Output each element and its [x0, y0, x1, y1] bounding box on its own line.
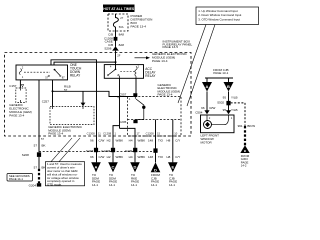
svg-text:C1208: C1208: [101, 149, 110, 153]
GEM fragment box B: [16, 88, 26, 103]
svg-text:S428: S428: [86, 149, 93, 153]
svg-text:C/W: C/W: [99, 155, 105, 159]
wire 4 from box A: [155, 120, 157, 163]
svg-text:14-1: 14-1: [109, 183, 115, 187]
off-page arrow E (wire 3): [130, 162, 140, 187]
svg-text:H2: H2: [107, 155, 111, 159]
svg-text:C157: C157: [9, 84, 17, 88]
svg-text:PAGE 13-4: PAGE 13-4: [158, 93, 173, 97]
svg-text:PAGE 13-4: PAGE 13-4: [48, 132, 63, 136]
wire: relay K1 to G204 ground run: [38, 80, 40, 152]
svg-text:14-1: 14-1: [151, 183, 157, 187]
svg-text:HOT AT ALL TIMES: HOT AT ALL TIMES: [103, 7, 135, 11]
off-page arrow C (wire 1): [91, 162, 101, 187]
node S206 entry arrow into GEM: [104, 46, 120, 69]
off-page arrow A: [202, 82, 212, 92]
svg-text:50A: 50A: [119, 25, 124, 29]
power distribution box label: [131, 14, 153, 29]
svg-text:PAGE 13-1: PAGE 13-1: [213, 71, 228, 75]
svg-text:R/W: R/W: [210, 106, 216, 110]
svg-text:15: 15: [157, 131, 160, 135]
svg-text:14-2: 14-2: [241, 164, 247, 168]
GEM bottom pin numbers: [41, 131, 178, 141]
motor M1 left front window motor: [201, 115, 235, 133]
note box: window command inputs: [196, 7, 259, 25]
svg-text:H4: H4: [129, 139, 133, 143]
svg-text:A: A: [206, 84, 209, 89]
svg-text:W/BK: W/BK: [138, 139, 146, 143]
connector C257: [42, 100, 50, 104]
svg-text:BK: BK: [42, 166, 46, 170]
svg-text:14-1: 14-1: [92, 183, 98, 187]
contact inside box A: [135, 97, 145, 120]
GEM label arrow: [135, 52, 188, 63]
GEM connector box A (dashed): [128, 97, 182, 137]
splice C557: [119, 92, 137, 97]
svg-text:G204: G204: [29, 184, 37, 188]
off-page arrow D from CJB (wire 4): [151, 162, 161, 187]
svg-text:H2: H2: [107, 139, 111, 143]
svg-text:C: C: [112, 164, 115, 169]
svg-text:PAGE 14-1: PAGE 14-1: [9, 177, 23, 181]
svg-text:T/O: T/O: [158, 155, 164, 159]
wire: branch into GEM box C: [81, 91, 86, 106]
wire 5 from box A: [172, 120, 174, 163]
G204 ground terminal: [29, 157, 42, 188]
motor label: [201, 134, 220, 145]
svg-text:C1208: C1208: [146, 131, 154, 135]
svg-text:C205: C205: [119, 120, 127, 124]
GEM fragment box C label: [48, 125, 83, 136]
svg-text:17: 17: [137, 131, 140, 135]
svg-text:S208: S208: [22, 153, 29, 157]
wire: relay K1 87a to connector C257: [52, 80, 54, 107]
svg-text:H8: H8: [166, 139, 170, 143]
svg-text:10: 10: [174, 131, 177, 135]
svg-text:87: 87: [62, 76, 65, 80]
svg-text:961: 961: [238, 124, 243, 128]
wire B to motor: [217, 92, 237, 115]
svg-text:57: 57: [34, 144, 38, 148]
GEM label block above box A: [158, 83, 181, 97]
svg-text:27: 27: [120, 16, 123, 20]
svg-text:148: 148: [148, 155, 153, 159]
from CJB source bracket: [205, 68, 233, 82]
GEM fragment box C: [50, 107, 94, 125]
svg-text:C257: C257: [42, 100, 50, 104]
svg-text:PAGE 13-4: PAGE 13-4: [9, 113, 24, 117]
svg-text:S206: S206: [104, 47, 111, 51]
svg-text:B: B: [227, 84, 230, 89]
svg-text:95: 95: [223, 108, 227, 112]
splice C205: [119, 120, 137, 124]
relay K2 label: [145, 67, 156, 78]
GEM fragment box B label: [9, 103, 32, 118]
svg-text:D: D: [154, 167, 157, 172]
svg-text:148: 148: [148, 139, 153, 143]
bottom wire labels row 2: [90, 155, 180, 159]
svg-text:RELAY: RELAY: [70, 73, 81, 77]
svg-text:C/W: C/W: [99, 139, 105, 143]
svg-text:CASE: CASE: [105, 40, 113, 44]
bottom wire labels row 1: [90, 139, 180, 143]
svg-text:2F: 2F: [117, 54, 120, 58]
relay K1 one touch down relay: [16, 65, 68, 80]
hot at all times header: [103, 5, 135, 13]
svg-text:PAGE 13-4: PAGE 13-4: [152, 59, 168, 63]
svg-text:8A8: 8A8: [119, 32, 125, 36]
svg-text:C/Y: C/Y: [175, 139, 180, 143]
svg-text:96: 96: [201, 106, 205, 110]
wire A to motor: [201, 92, 215, 115]
svg-text:D: D: [134, 164, 137, 169]
svg-text:95: 95: [223, 96, 227, 100]
wire: relay K1 pin30 to feed: [54, 61, 117, 65]
svg-text:3. OTD Window Command Input: 3. OTD Window Command Input: [198, 17, 240, 21]
svg-text:OTD mode.: OTD mode.: [47, 183, 62, 187]
wire: C/B 8A8 feed from breaker: [108, 31, 124, 47]
off-page arrow D (wire 2): [108, 162, 118, 187]
instrument panel fuse/relay panel label: [163, 39, 193, 49]
generic electronic module GEM (dashed box): [5, 53, 192, 137]
svg-text:W/BK: W/BK: [138, 155, 146, 159]
svg-text:14-1: 14-1: [169, 183, 175, 187]
relay K2 accessory delay relay: [104, 65, 143, 79]
svg-text:BK/W: BK/W: [247, 124, 255, 128]
svg-text:96: 96: [90, 155, 94, 159]
svg-text:PAGE 13-5: PAGE 13-5: [163, 45, 179, 49]
connector C157: [9, 80, 23, 88]
svg-text:BK: BK: [42, 144, 46, 148]
relay K1 label: [70, 63, 82, 78]
svg-text:C/Y: C/Y: [175, 155, 180, 159]
wire: K2 coil to splice C557: [135, 78, 137, 93]
off-page arrow B: [224, 82, 234, 92]
svg-text:C1208: C1208: [87, 131, 95, 135]
svg-text:8A8: 8A8: [119, 43, 125, 47]
svg-text:C1208: C1208: [103, 131, 111, 135]
svg-text:H4: H4: [129, 155, 133, 159]
svg-text:S502: S502: [217, 101, 224, 105]
svg-text:T/O: T/O: [158, 139, 164, 143]
circuit breaker C/B 27: [113, 14, 123, 31]
svg-text:96: 96: [90, 139, 94, 143]
svg-text:57: 57: [41, 137, 44, 141]
svg-text:PAGE 13-4: PAGE 13-4: [131, 25, 147, 29]
svg-text:W/BK: W/BK: [116, 139, 124, 143]
svg-text:Y/LB: Y/LB: [231, 108, 238, 112]
wire label 57 R/LB: [64, 85, 71, 92]
svg-text:57: 57: [45, 76, 48, 80]
svg-text:W/BK: W/BK: [116, 155, 124, 159]
off-page arrow E (wire 5): [168, 162, 178, 187]
svg-text:57: 57: [34, 166, 38, 170]
svg-text:C504: C504: [195, 111, 203, 115]
leader lines from note box: [178, 25, 215, 107]
wire: junction to splice C557: [53, 91, 134, 96]
power distribution box (dashed): [108, 14, 128, 31]
svg-text:Y/LB: Y/LB: [231, 96, 238, 100]
connector C504: [195, 111, 203, 115]
svg-text:MOTOR: MOTOR: [201, 140, 213, 144]
ground G303 terminal: [240, 145, 249, 167]
splice S1206: [104, 36, 117, 43]
wire: K2 contact down with jogs to pins: [113, 78, 135, 162]
note callout box with leader: [45, 138, 84, 187]
splices on bottom wires with dashed bus: [39, 148, 158, 153]
svg-text:S430: S430: [125, 149, 132, 153]
svg-text:14-1: 14-1: [131, 183, 137, 187]
ground branch wire 961 BK/W: [231, 103, 256, 145]
wire: relay K1 pin87 to pin 11 (wire 1): [51, 60, 97, 163]
svg-text:H8: H8: [166, 155, 170, 159]
svg-text:A: A: [95, 164, 98, 169]
see grounds note box: [7, 174, 33, 182]
svg-text:E: E: [171, 164, 174, 169]
svg-text:C557: C557: [119, 92, 127, 96]
G204 ground wire labels: [22, 144, 46, 170]
svg-text:RELAY: RELAY: [145, 74, 156, 78]
